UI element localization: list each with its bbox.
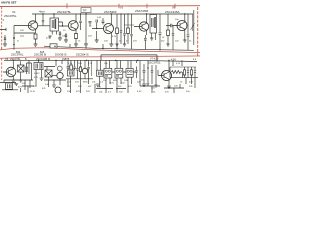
svg-text:2SC1345A: 2SC1345A [165, 10, 180, 14]
svg-text:2SC976L: 2SC976L [11, 53, 24, 57]
svg-text:1k 5t: 1k 5t [30, 90, 35, 93]
svg-text:IN60: IN60 [83, 82, 88, 84]
svg-text:TP: TP [83, 9, 87, 13]
svg-text:4.5V: 4.5V [137, 91, 142, 93]
svg-text:2SC92# IS: 2SC92# IS [76, 53, 89, 57]
svg-text:AM FB SET: AM FB SET [1, 0, 17, 4]
svg-text:2SC95 B: 2SC95 B [34, 53, 46, 57]
svg-text:2SC1675L: 2SC1675L [57, 10, 72, 14]
svg-text:2SC975L: 2SC975L [4, 14, 17, 18]
svg-text:DO/GB IS: DO/GB IS [55, 53, 67, 57]
svg-text:4om: 4om [39, 9, 45, 13]
svg-text:2SC536F: 2SC536F [104, 10, 117, 14]
svg-text:0.022: 0.022 [34, 73, 40, 75]
svg-text:2SA725M: 2SA725M [135, 9, 149, 13]
svg-text:V7 4.5V: V7 4.5V [150, 58, 159, 61]
